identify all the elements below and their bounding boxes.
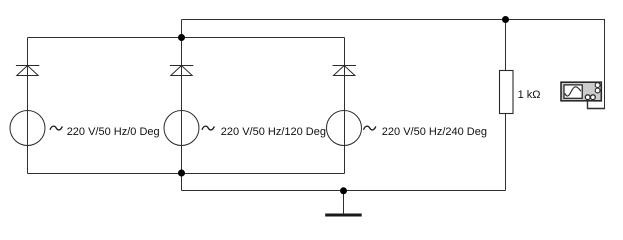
- wire top bus: [182, 19, 606, 21]
- svg-text:220 V/50 Hz/240 Deg: 220 V/50 Hz/240 Deg: [382, 126, 487, 138]
- wire ground stem: [343, 191, 345, 214]
- source V3: [327, 111, 487, 146]
- wire branch2 top stub: [181, 20, 183, 38]
- junction node lower bus / branch2: [178, 170, 185, 177]
- wire return bus: [182, 190, 506, 192]
- svg-text:220 V/50 Hz/120 Deg: 220 V/50 Hz/120 Deg: [221, 126, 326, 138]
- wire branch1 vertical: [27, 38, 29, 174]
- wire branch2 drop: [181, 174, 183, 191]
- source V1: [10, 111, 160, 146]
- wire right vertical to scope: [604, 20, 606, 110]
- junction node upper bus / branch2: [178, 34, 185, 41]
- resistor R1: [500, 71, 541, 114]
- wire branch2 vertical: [181, 38, 183, 174]
- wire branch3 vertical: [344, 38, 346, 174]
- diode D1: [16, 66, 39, 76]
- wire resistor top lead: [505, 20, 507, 71]
- oscilloscope XSC1: [561, 82, 601, 101]
- svg-text:220 V/50 Hz/0 Deg: 220 V/50 Hz/0 Deg: [67, 126, 160, 138]
- diode D3: [333, 66, 356, 76]
- junction node top bus / resistor: [502, 16, 509, 23]
- wire lower bus: [28, 173, 345, 175]
- wire scope hook up: [587, 101, 589, 110]
- source V2: [164, 111, 326, 146]
- junction node return bus / ground: [340, 187, 347, 194]
- wire resistor bottom lead: [505, 114, 507, 191]
- ground: [325, 214, 362, 217]
- wire upper bus: [28, 37, 345, 39]
- svg-text:1 kΩ: 1 kΩ: [518, 89, 541, 101]
- diode D2: [170, 66, 193, 76]
- wire scope hook bottom: [587, 108, 605, 110]
